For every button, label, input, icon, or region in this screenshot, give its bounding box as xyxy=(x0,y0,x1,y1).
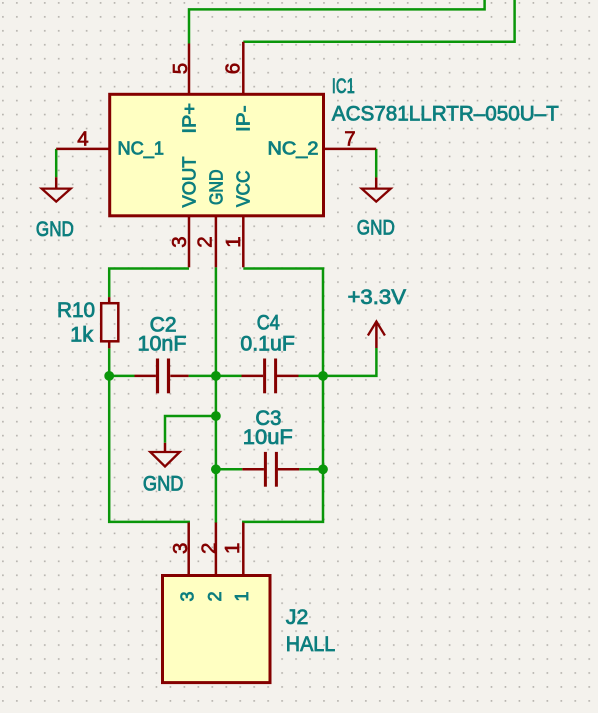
svg-text:VCC: VCC xyxy=(234,171,254,208)
svg-text:10nF: 10nF xyxy=(138,332,187,355)
pin 6 xyxy=(222,42,245,95)
IC IC1 body xyxy=(110,94,324,216)
pin 4 xyxy=(56,128,109,151)
svg-text:6: 6 xyxy=(222,63,245,74)
svg-text:IP-: IP- xyxy=(234,106,254,133)
svg-text:R10: R10 xyxy=(57,299,95,322)
svg-text:ACS781LLRTR–050U–T: ACS781LLRTR–050U–T xyxy=(332,103,559,126)
ground right xyxy=(357,177,395,239)
wire xyxy=(299,468,323,471)
wire xyxy=(109,348,189,523)
wire xyxy=(216,468,242,471)
pin 2 xyxy=(193,216,216,267)
junction node xyxy=(211,411,221,421)
J2 pin 3 xyxy=(169,523,198,602)
svg-text:NC_2: NC_2 xyxy=(268,138,319,159)
pin 3 xyxy=(168,216,191,267)
svg-text:VOUT: VOUT xyxy=(179,157,199,208)
svg-text:3: 3 xyxy=(178,591,198,601)
junction node xyxy=(318,371,328,381)
svg-text:0.1uF: 0.1uF xyxy=(240,332,295,355)
ground middle xyxy=(143,443,184,496)
svg-text:+3.3V: +3.3V xyxy=(348,286,407,309)
svg-text:1k: 1k xyxy=(70,323,94,346)
svg-text:1: 1 xyxy=(232,591,252,601)
svg-text:C4: C4 xyxy=(257,312,280,335)
pin 5 xyxy=(169,44,192,95)
svg-text:5: 5 xyxy=(169,63,192,74)
svg-text:2: 2 xyxy=(197,543,220,554)
svg-text:4: 4 xyxy=(77,128,88,151)
wire xyxy=(109,375,134,378)
wire xyxy=(299,348,377,376)
wire xyxy=(189,0,485,44)
svg-text:2: 2 xyxy=(205,591,225,601)
wire xyxy=(189,375,242,378)
wire xyxy=(215,267,218,523)
wire xyxy=(55,149,58,177)
wire xyxy=(165,416,216,443)
ground left xyxy=(36,177,74,241)
svg-text:2: 2 xyxy=(193,236,216,247)
junction node xyxy=(211,464,221,474)
svg-text:NC_1: NC_1 xyxy=(118,138,165,159)
junction node xyxy=(104,371,114,381)
svg-text:GND: GND xyxy=(143,473,184,496)
svg-text:GND: GND xyxy=(357,216,395,239)
wire xyxy=(243,0,514,42)
capacitor C2 xyxy=(135,359,189,394)
resistor R10 xyxy=(101,297,118,348)
svg-text:J2: J2 xyxy=(286,606,309,629)
svg-text:1: 1 xyxy=(222,236,245,247)
svg-text:3: 3 xyxy=(169,543,192,554)
J2 pin 1 xyxy=(221,523,252,602)
pin 7 xyxy=(324,128,377,151)
svg-text:HALL: HALL xyxy=(286,633,336,656)
svg-text:GND: GND xyxy=(36,218,74,241)
svg-text:IP+: IP+ xyxy=(179,103,199,134)
capacitor C4 xyxy=(242,359,299,394)
svg-text:GND: GND xyxy=(206,170,226,206)
J2 pin 2 xyxy=(197,523,225,602)
wire xyxy=(243,269,323,524)
junction node xyxy=(318,464,328,474)
svg-text:10uF: 10uF xyxy=(243,426,293,449)
wire xyxy=(109,269,189,298)
power +3.3V xyxy=(348,286,407,348)
svg-text:IC1: IC1 xyxy=(332,75,355,98)
svg-text:1: 1 xyxy=(221,543,244,554)
junction node xyxy=(211,371,221,381)
wire xyxy=(375,149,378,178)
svg-text:3: 3 xyxy=(168,236,191,247)
svg-text:7: 7 xyxy=(344,128,355,151)
pin 1 xyxy=(222,216,245,267)
capacitor C3 xyxy=(242,452,299,487)
connector J2 body xyxy=(163,576,271,683)
